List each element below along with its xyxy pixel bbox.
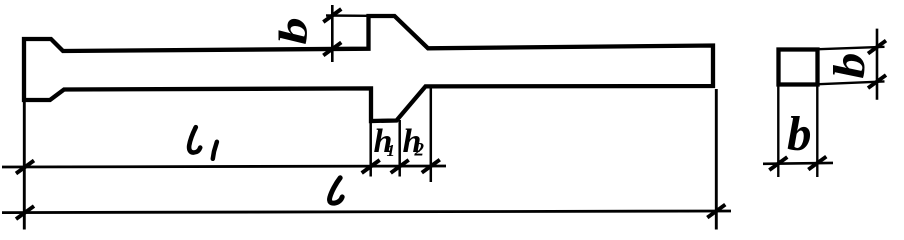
- dimension line l: [2, 211, 731, 213]
- extension line cross-section below left: [777, 87, 779, 178]
- cross-section square: [779, 50, 818, 85]
- tick h1 left: [362, 160, 380, 173]
- extension line h1-h2 middle: [398, 120, 401, 177]
- dimension line b right: [876, 29, 879, 100]
- extension line h1 left: [369, 122, 372, 177]
- tick h1-h2: [391, 160, 409, 173]
- label l1 script ell: [189, 127, 200, 152]
- svg-text:1: 1: [387, 141, 396, 160]
- dimension line l1: [2, 166, 446, 167]
- tick b right upper: [868, 41, 886, 54]
- extension line bump top: [326, 14, 367, 17]
- tick b bottom right: [808, 157, 826, 170]
- label l total script ell: [330, 178, 343, 203]
- tick b top upper: [323, 9, 341, 22]
- tick b right lower: [868, 75, 886, 88]
- extension line right end: [715, 89, 718, 230]
- svg-text:b: b: [272, 17, 316, 45]
- tick b bottom left: [769, 157, 787, 170]
- beam outline: [24, 16, 713, 121]
- extension line h2 right: [430, 87, 433, 182]
- tick b top lower: [323, 42, 341, 55]
- svg-text:b: b: [826, 53, 874, 79]
- label l1 subscript 1: [213, 142, 217, 159]
- tick l right: [707, 205, 725, 218]
- tick l1 left: [16, 161, 34, 174]
- tick h2 right: [422, 160, 440, 173]
- label h2: [403, 123, 425, 161]
- dimension line b top: [331, 5, 334, 62]
- svg-text:b: b: [787, 106, 812, 161]
- extension line left: [23, 101, 26, 230]
- tick l left: [16, 206, 34, 219]
- dimension line b bottom: [763, 162, 833, 166]
- extension line cross-section below right: [816, 87, 818, 178]
- extension line cross-section bottom: [819, 81, 885, 84]
- label h1: [374, 123, 396, 160]
- svg-text:2: 2: [414, 140, 425, 161]
- extension line cross-section top: [819, 47, 885, 49]
